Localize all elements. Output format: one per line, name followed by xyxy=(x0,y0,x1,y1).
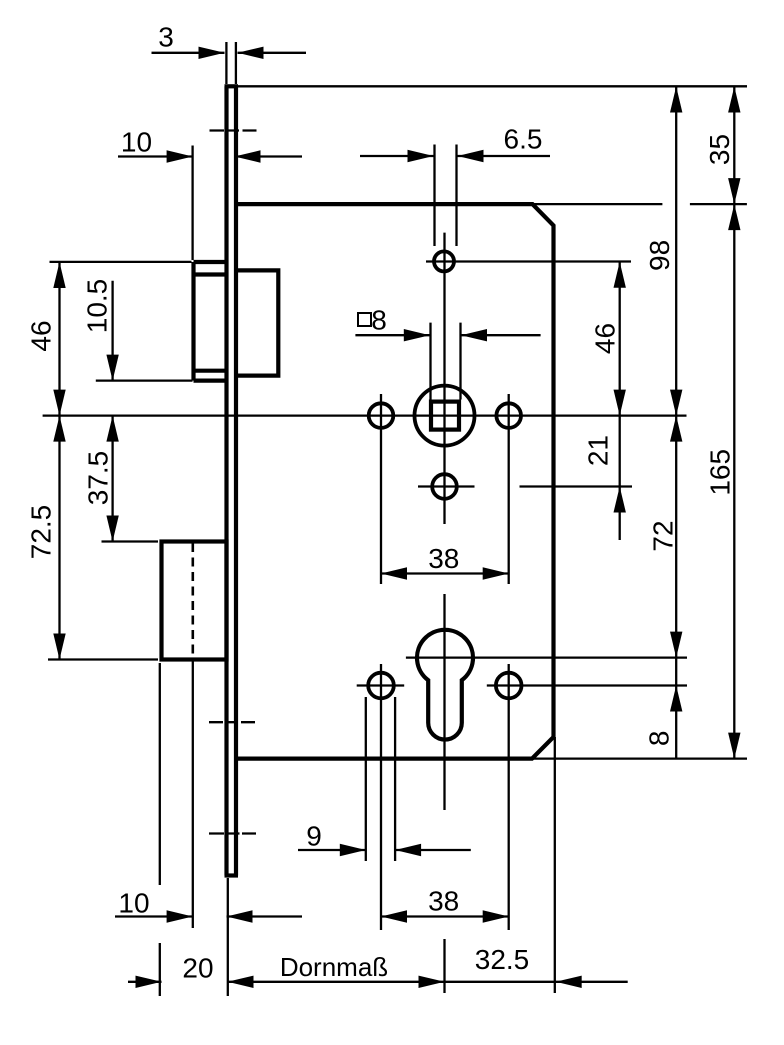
svg-text:38: 38 xyxy=(428,543,459,574)
svg-text:20: 20 xyxy=(182,953,213,984)
svg-text:72.5: 72.5 xyxy=(26,505,57,560)
svg-text:10: 10 xyxy=(121,127,152,158)
svg-text:46: 46 xyxy=(590,323,621,354)
svg-text:8: 8 xyxy=(371,305,387,336)
svg-text:165: 165 xyxy=(704,449,735,496)
svg-text:6.5: 6.5 xyxy=(504,124,543,155)
svg-text:10.5: 10.5 xyxy=(82,279,113,334)
svg-text:8: 8 xyxy=(644,731,675,747)
svg-text:37.5: 37.5 xyxy=(83,451,114,506)
svg-text:46: 46 xyxy=(26,320,57,351)
svg-text:72: 72 xyxy=(648,520,679,551)
svg-text:32.5: 32.5 xyxy=(475,944,530,975)
svg-text:Dornmaß: Dornmaß xyxy=(280,952,388,982)
svg-text:21: 21 xyxy=(583,435,614,466)
svg-text:38: 38 xyxy=(428,886,459,917)
svg-text:3: 3 xyxy=(158,22,174,53)
svg-text:9: 9 xyxy=(306,821,322,852)
svg-text:10: 10 xyxy=(118,888,149,919)
svg-text:35: 35 xyxy=(704,134,735,165)
svg-text:98: 98 xyxy=(644,240,675,271)
